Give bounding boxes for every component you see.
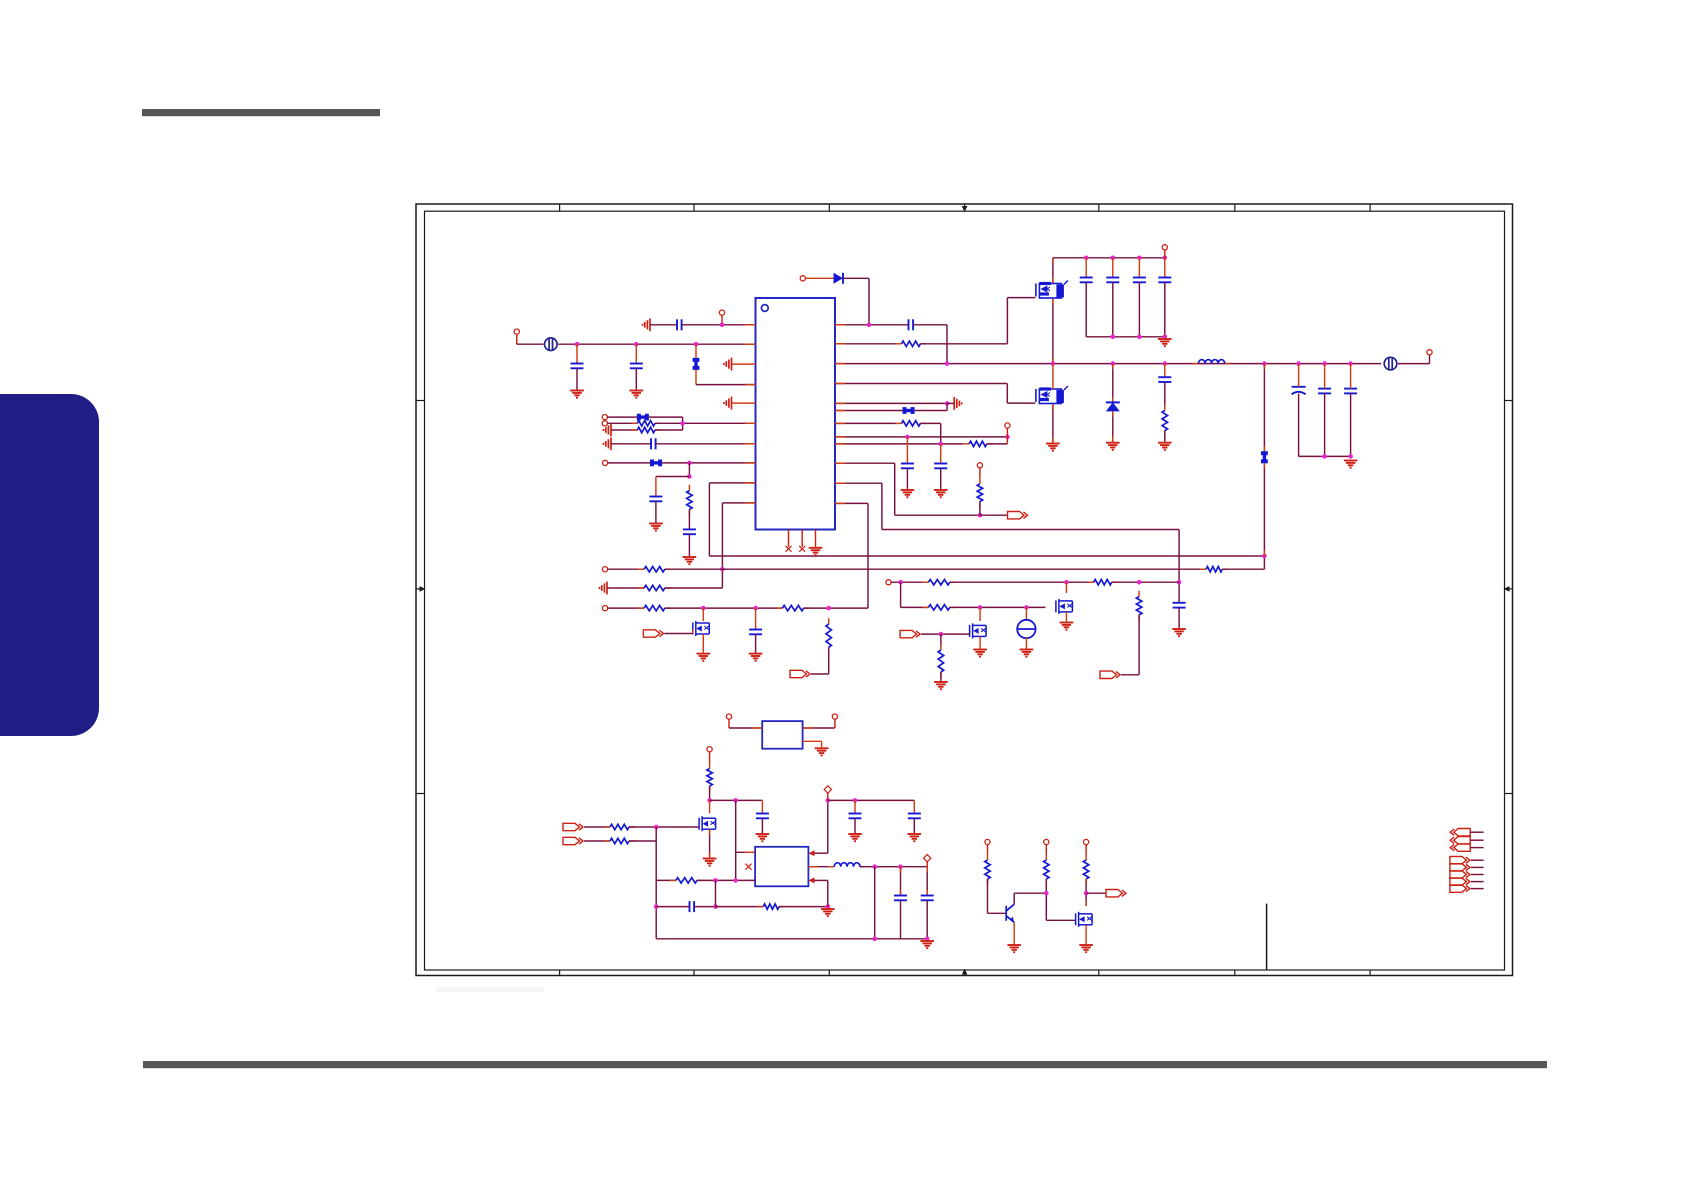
FET Q8 bbox=[1076, 912, 1093, 927]
ground bbox=[683, 557, 697, 564]
pull-up resistor R20 bbox=[707, 747, 712, 752]
pin row VREF cluster : terminal, net-tie W2, resistors R1 R2 bbox=[602, 415, 607, 420]
U4 right pins bbox=[809, 850, 815, 856]
capacitor C3 bbox=[635, 344, 637, 363]
voltage detector U2 bbox=[762, 721, 802, 749]
capacitor C16 bbox=[906, 437, 908, 464]
frame outer border bbox=[416, 204, 1513, 976]
ground bbox=[1158, 339, 1172, 346]
ground bbox=[749, 654, 763, 661]
resistor R18 below flag node bbox=[940, 634, 942, 646]
ground bbox=[1079, 945, 1093, 952]
pin row LODRV : terminal, net-tie W3, RC to ground bbox=[603, 460, 608, 465]
pin row to sense bus bbox=[722, 502, 755, 504]
regulator U4 bbox=[755, 847, 808, 887]
resistor R14 to flag bbox=[828, 618, 830, 624]
capacitor C2 bbox=[576, 344, 578, 363]
ground bbox=[1060, 623, 1074, 630]
flag stack A bbox=[1450, 829, 1470, 836]
resistor R11 bbox=[979, 478, 981, 484]
capacitor C6 bbox=[683, 529, 696, 534]
cap bank return rail bbox=[1086, 336, 1165, 338]
fuse F2 bbox=[1384, 357, 1397, 370]
frame centre arrows bbox=[964, 204, 966, 211]
ground bbox=[848, 834, 862, 841]
adapter cap bank rail bbox=[1053, 257, 1165, 259]
output inductor L2 bbox=[808, 866, 828, 868]
pin row ACDET : chassis gnd, cap C1, terminal bbox=[642, 318, 650, 331]
pin row to lower rail bbox=[835, 502, 868, 504]
flag stack B bbox=[1450, 857, 1470, 864]
output caps C24 C25 bbox=[874, 867, 876, 939]
snubber C12 R8 bbox=[1164, 364, 1166, 378]
bus SRN : terminal, resistors R5 R6 bbox=[602, 567, 607, 572]
BATFET Q2 bbox=[1036, 389, 1062, 404]
pin row IOUT bbox=[835, 436, 1007, 438]
ACFET Q1 bbox=[1036, 284, 1062, 299]
ground bbox=[973, 650, 987, 657]
capacitor C19 bbox=[755, 608, 757, 629]
ground bbox=[703, 859, 717, 866]
ground bbox=[815, 748, 829, 755]
section divider line bbox=[1266, 904, 1268, 970]
pin row PVCC : chassis gnd right bbox=[835, 402, 947, 404]
frame inner border bbox=[425, 211, 1505, 970]
ground bbox=[1158, 443, 1172, 450]
battery cap bank : C13 C14 C15 bbox=[1292, 387, 1306, 395]
net flag bbox=[1100, 671, 1120, 678]
resistor R3 bbox=[688, 485, 690, 491]
header bar bbox=[142, 109, 380, 116]
net flag to Q5 gate bbox=[900, 630, 920, 637]
ground bbox=[809, 548, 823, 555]
net flag to Q3 gate bbox=[643, 630, 663, 637]
ground bbox=[1172, 629, 1186, 636]
enable FET Q6 bbox=[699, 816, 716, 831]
net flag bbox=[790, 670, 810, 677]
net flag bbox=[1106, 890, 1126, 897]
ground bbox=[934, 490, 948, 497]
pin row ACDRV : cap C7 to gate rail bbox=[835, 324, 909, 326]
current source symbol bbox=[1025, 607, 1027, 620]
ground bbox=[1046, 444, 1060, 451]
ground bbox=[697, 654, 711, 661]
pin row with resistor R10 bbox=[835, 443, 963, 445]
faint footnote bar bbox=[436, 987, 544, 992]
capacitor C11 bbox=[1164, 258, 1166, 278]
bypass caps C22 C23 on 3V rail bbox=[828, 799, 915, 801]
row SRP : chassis gnd, resistor R4 bbox=[599, 582, 607, 595]
net-tie W1 bbox=[695, 344, 697, 358]
pin row with net-tie W5 bbox=[835, 410, 903, 412]
ground bbox=[821, 909, 835, 916]
pin row with gate resistor R7 bbox=[896, 343, 902, 345]
ground bbox=[1106, 443, 1120, 450]
U1 bottom pins : NC marks and ground bbox=[788, 530, 790, 547]
NPN Q7 bbox=[1006, 904, 1014, 922]
FET Q4 bbox=[1056, 599, 1073, 614]
main power rail bbox=[835, 363, 1381, 365]
capacitor C10 bbox=[1138, 258, 1140, 278]
bootstrap diode D1 with terminal bbox=[800, 276, 805, 281]
ground bbox=[649, 524, 663, 531]
capacitor C5 bbox=[649, 497, 662, 502]
footer bar bbox=[143, 1061, 1547, 1068]
bus BATDRV bbox=[709, 555, 1264, 557]
pin row with resistor R9 bbox=[896, 422, 902, 424]
ground bbox=[920, 941, 934, 948]
pin row with cap C4 and chassis gnd bbox=[603, 437, 611, 450]
return rail bbox=[656, 938, 927, 940]
ground bbox=[901, 490, 915, 497]
pin row BATDRV to BATFET gate bbox=[835, 383, 1007, 385]
ground bbox=[630, 391, 644, 398]
net-tie W4 on battery branch bbox=[1263, 364, 1265, 452]
pin row to comparator bus bbox=[709, 482, 755, 484]
pin row ILIM : divider and flag bbox=[835, 462, 895, 464]
ground bbox=[1007, 945, 1021, 952]
pin row AGND : chassis gnd bbox=[724, 397, 732, 410]
feedback row : resistor R23 bbox=[656, 879, 676, 881]
ground bbox=[1020, 650, 1034, 657]
gate flags and resistors R21 R22 bbox=[563, 823, 583, 830]
input rail : terminal J1, fuse F1 bbox=[514, 329, 519, 334]
charger controller U1 bbox=[756, 298, 836, 530]
ground bbox=[908, 834, 922, 841]
comp row : cap C21 and resistor R24 bbox=[690, 901, 695, 912]
pull-up R27 bbox=[1084, 839, 1089, 844]
input node rail bbox=[710, 799, 763, 801]
inductor L1 bbox=[1193, 363, 1199, 365]
capacitor C18 bbox=[1173, 603, 1186, 608]
resistor R19 to flag bbox=[1138, 591, 1140, 597]
row : terminal, resistor R12, second resistor R13 bbox=[602, 606, 607, 611]
pull-up R25 bbox=[985, 839, 990, 844]
capacitor C8 bbox=[1085, 258, 1087, 278]
capacitor C9 bbox=[1112, 258, 1114, 278]
capacitor C20 bbox=[756, 814, 769, 819]
ground bbox=[570, 391, 584, 398]
pin row to comparator rail bbox=[835, 482, 882, 484]
gate drive FET Q3 bbox=[702, 608, 704, 621]
ground bbox=[934, 682, 948, 689]
zener D2 bbox=[1112, 364, 1114, 403]
capacitor C17 bbox=[940, 444, 942, 464]
FET Q5 bbox=[979, 607, 981, 621]
net flag ILIM bbox=[1008, 512, 1028, 519]
side tab block bbox=[0, 394, 99, 736]
ground bbox=[756, 834, 770, 841]
lower row with resistor R17 bbox=[900, 582, 902, 607]
ground bbox=[1344, 461, 1358, 468]
pull-up R26 bbox=[1044, 839, 1049, 844]
pin row CELL : chassis gnd bbox=[724, 358, 732, 371]
row : terminal, resistors R15 R16 bbox=[886, 580, 891, 585]
